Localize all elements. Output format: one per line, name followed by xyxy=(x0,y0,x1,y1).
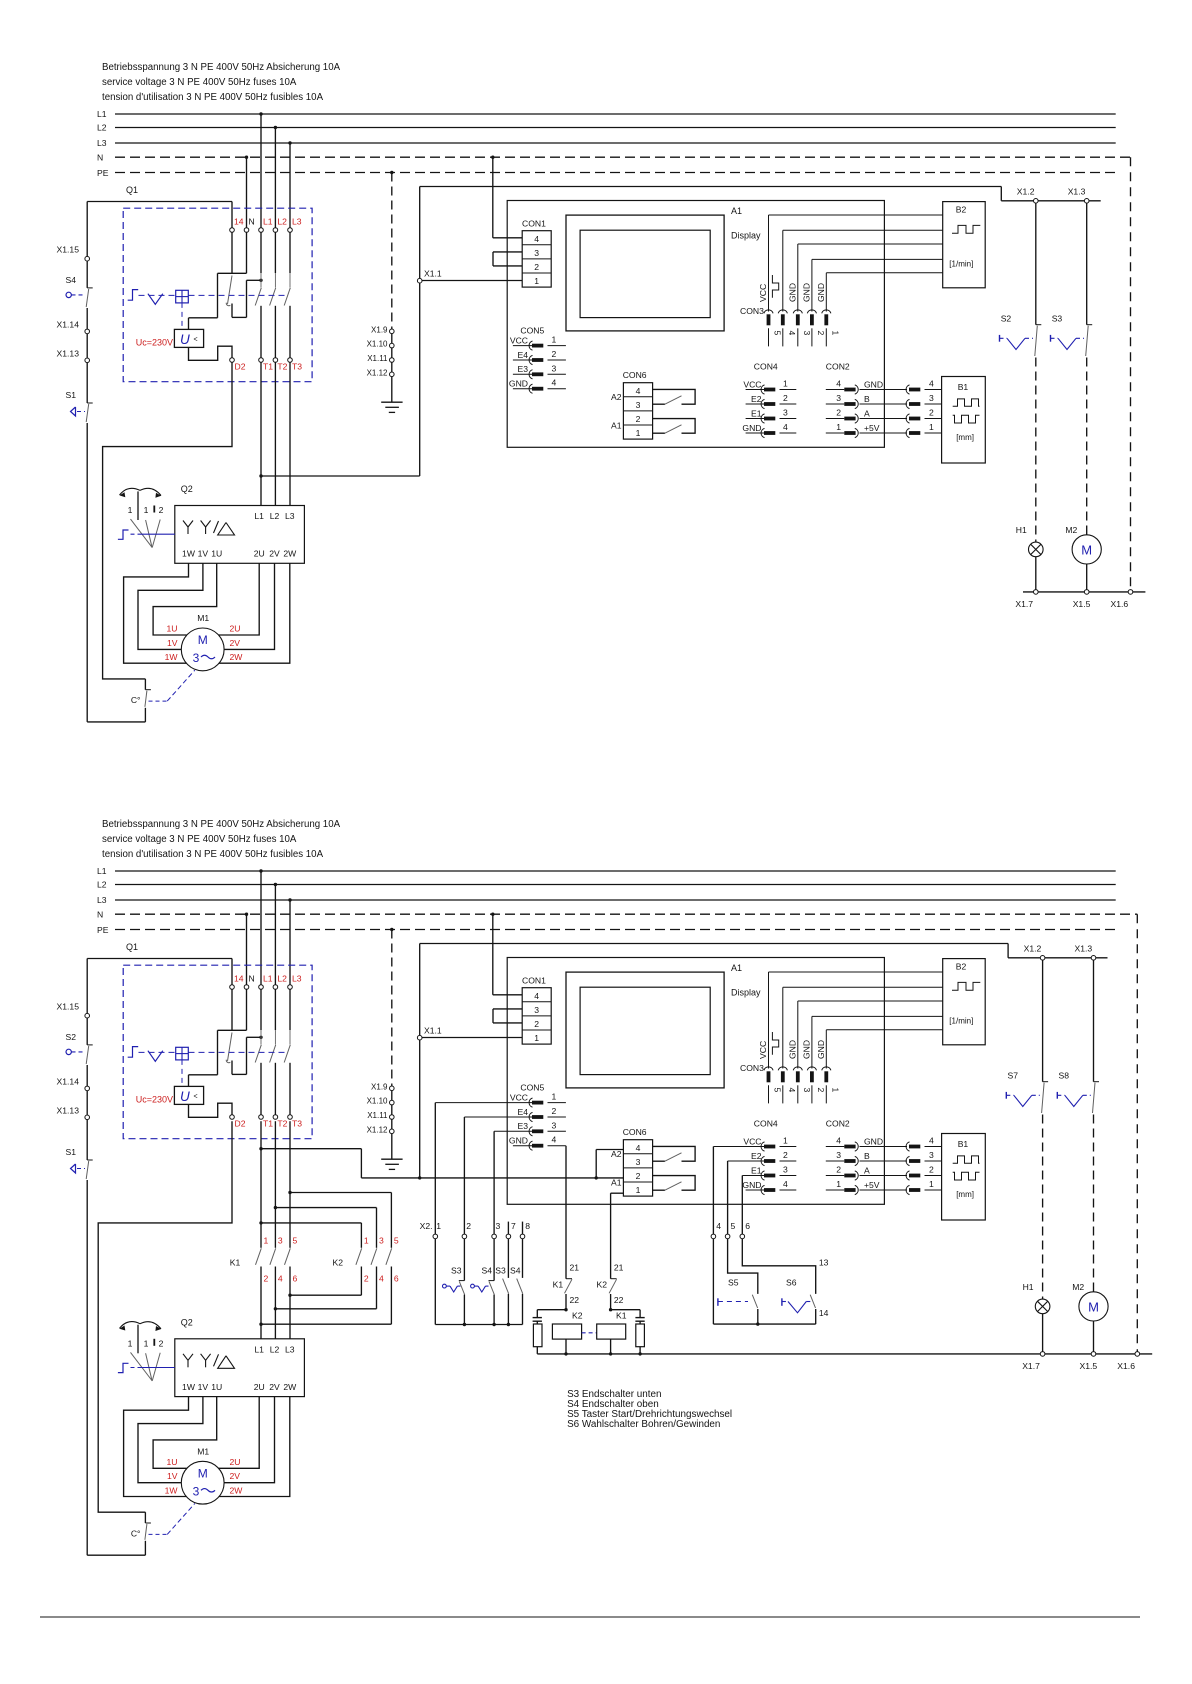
display screen outer xyxy=(566,972,724,1088)
junction L1 rail to Q1 xyxy=(259,869,262,872)
svg-text:B: B xyxy=(864,394,870,404)
svg-text:3: 3 xyxy=(534,248,539,258)
svg-text:5: 5 xyxy=(293,1236,298,1246)
sensor B1 box xyxy=(942,377,986,464)
Q1 pole L1 lead and contact xyxy=(260,232,262,273)
svg-text:K1: K1 xyxy=(553,1280,564,1290)
junction on L1 pole xyxy=(259,1036,262,1039)
svg-text:[mm]: [mm] xyxy=(956,1190,974,1199)
svg-text:S1: S1 xyxy=(65,1147,76,1157)
svg-text:L1: L1 xyxy=(97,866,107,876)
display screen inner xyxy=(580,230,710,317)
svg-text:4: 4 xyxy=(716,1221,721,1231)
Q1 U-coil to D2 wiring xyxy=(189,346,233,360)
svg-text:S6: S6 xyxy=(786,1278,797,1288)
wire terminal4 to button bus xyxy=(712,1239,714,1324)
CON3 pin 3 (GND) xyxy=(797,1001,799,1069)
svg-text:3: 3 xyxy=(836,1150,841,1160)
Q1 pole N top lead xyxy=(246,232,248,273)
S2 actuator (blue) xyxy=(999,335,1001,342)
svg-text:S4: S4 xyxy=(510,1266,521,1276)
svg-text:1: 1 xyxy=(636,428,641,438)
junction K2 coil top xyxy=(564,1308,567,1311)
svg-text:2: 2 xyxy=(636,1171,641,1181)
svg-text:A1: A1 xyxy=(611,420,622,430)
svg-text:2V: 2V xyxy=(269,549,280,559)
svg-text:1W: 1W xyxy=(182,549,196,559)
wire X2-1 to bus xyxy=(434,1239,436,1325)
wire S2 to lamp H1 (dashed) xyxy=(1035,358,1037,543)
svg-text:L1: L1 xyxy=(254,1344,264,1354)
junction K2 feed 1 xyxy=(259,1221,262,1224)
svg-text:5: 5 xyxy=(773,1088,783,1093)
svg-text:3: 3 xyxy=(636,1157,641,1167)
svg-text:S6 Wahlschalter Bohren/Gewinde: S6 Wahlschalter Bohren/Gewinden xyxy=(567,1419,720,1430)
svg-text:S7: S7 xyxy=(1008,1071,1019,1081)
svg-text:4: 4 xyxy=(636,1143,641,1153)
switch Q2 (YY/delta selector) box xyxy=(175,1339,305,1397)
svg-text:[1/min]: [1/min] xyxy=(949,1017,973,1026)
svg-text:B1: B1 xyxy=(958,382,969,392)
svg-text:service voltage 3 N PE 400V 50: service voltage 3 N PE 400V 50Hz fuses 1… xyxy=(102,77,297,88)
switch Q2 (YY/delta selector) box xyxy=(175,506,305,564)
svg-text:S5: S5 xyxy=(728,1278,739,1288)
sensor B1 box xyxy=(942,1134,986,1221)
svg-text:2: 2 xyxy=(264,1274,269,1284)
Q1 pole N top lead xyxy=(246,989,248,1030)
svg-text:S8: S8 xyxy=(1059,1071,1070,1081)
wire X1.12 to ground xyxy=(391,377,393,403)
circuit breaker Q1 enclosure (blue dashed) xyxy=(123,208,312,382)
svg-text:3: 3 xyxy=(193,1484,200,1498)
CON3 pin 1 wire to B2 xyxy=(826,272,942,274)
wire D2 to C-contact route xyxy=(103,362,232,679)
svg-text:4: 4 xyxy=(836,1136,841,1146)
wire 14 feed from X1.15 branch xyxy=(87,958,232,960)
bottom rail of right circuit xyxy=(537,1353,1152,1355)
snubber resistor left xyxy=(536,1321,538,1324)
CON3 pin 2 wire to B2 xyxy=(812,1015,943,1017)
wire Q2 2W to M1 xyxy=(219,563,290,663)
Q1 tie 14-N xyxy=(218,272,247,274)
svg-text:L1: L1 xyxy=(263,974,273,984)
wire L2 drop to Q1 xyxy=(274,128,276,228)
svg-text:X1.9: X1.9 xyxy=(371,1082,388,1091)
CON3 pin 4 wire to B2 xyxy=(783,229,943,231)
svg-text:GND: GND xyxy=(509,379,528,389)
CON3 pin 1 wire to B2 xyxy=(826,1029,942,1031)
svg-text:VCC: VCC xyxy=(510,335,528,345)
svg-text:1V: 1V xyxy=(198,549,209,559)
svg-text:13: 13 xyxy=(819,1258,829,1268)
svg-text:GND: GND xyxy=(816,1040,826,1059)
svg-text:GND: GND xyxy=(787,283,797,302)
svg-text:tension d'utilisation 3 N PE 4: tension d'utilisation 3 N PE 400V 50Hz f… xyxy=(102,849,324,860)
svg-text:M: M xyxy=(1088,1300,1099,1315)
svg-text:1V: 1V xyxy=(167,638,178,648)
svg-text:X1.12: X1.12 xyxy=(367,1125,388,1134)
junction L3 rail to Q1 xyxy=(288,141,291,144)
CON3 pin 3 wire to B2 xyxy=(798,1000,943,1002)
svg-text:L1: L1 xyxy=(97,109,107,119)
svg-text:3: 3 xyxy=(552,363,557,373)
S5 actuator (blue) xyxy=(717,1298,719,1306)
svg-text:L3: L3 xyxy=(292,217,302,227)
wire L2 drop to Q1 xyxy=(274,885,276,985)
B1 connector pin 3 xyxy=(906,1156,909,1165)
B1 connector pin 1 xyxy=(906,1185,909,1194)
svg-text:service voltage 3 N PE 400V 50: service voltage 3 N PE 400V 50Hz fuses 1… xyxy=(102,834,297,845)
svg-text:X1.12: X1.12 xyxy=(367,368,388,377)
svg-text:GND: GND xyxy=(864,1136,883,1146)
svg-text:VCC: VCC xyxy=(510,1092,528,1102)
junction K2 feed 2 xyxy=(274,1206,277,1209)
Q2 actuator link (blue) xyxy=(141,533,175,535)
svg-text:K2: K2 xyxy=(572,1311,583,1321)
wire X1.10-X1.11 xyxy=(391,348,393,358)
svg-text:S4: S4 xyxy=(65,275,76,285)
CON3 pin 1 (GND) xyxy=(825,273,827,312)
wire terminal6 to S6 xyxy=(742,1239,815,1294)
svg-text:B2: B2 xyxy=(956,205,967,215)
svg-text:3: 3 xyxy=(193,651,200,665)
K2 output 1 to T3 column xyxy=(360,1267,362,1296)
Q1 pole 14 contact blade xyxy=(228,1033,233,1062)
svg-text:2: 2 xyxy=(636,414,641,424)
CON3 pin 2 (GND) xyxy=(811,1016,813,1068)
svg-text:2: 2 xyxy=(816,1088,826,1093)
svg-text:X1.15: X1.15 xyxy=(57,245,80,255)
Q1 pole 14 bottom lead xyxy=(231,304,233,318)
terminal X1.7 xyxy=(1040,1352,1045,1357)
display screen outer xyxy=(566,215,724,331)
Q1 magnetic trip symbol (crossed square) xyxy=(176,1047,189,1060)
CON6 switch loop upper xyxy=(653,1146,696,1161)
svg-text:3: 3 xyxy=(802,1088,812,1093)
svg-text:1: 1 xyxy=(552,1092,557,1102)
wire CON6 pin1 to contactor coil branch xyxy=(611,1192,624,1194)
svg-text:4: 4 xyxy=(787,1088,797,1093)
terminal X1.5 xyxy=(1084,590,1089,595)
svg-text:2: 2 xyxy=(816,331,826,336)
svg-text:2U: 2U xyxy=(230,624,241,634)
svg-text:2: 2 xyxy=(836,1165,841,1175)
K2 output 3 to T1 column xyxy=(390,1267,392,1325)
S3 actuator (blue) xyxy=(1050,335,1052,342)
svg-text:3: 3 xyxy=(278,1236,283,1246)
wire Q2 1V to M1 xyxy=(138,1397,203,1483)
svg-text:CON5: CON5 xyxy=(520,326,544,336)
svg-text:1: 1 xyxy=(144,1338,149,1348)
Q1 thermal trip V symbol xyxy=(148,1051,163,1062)
sensor B2 box xyxy=(943,202,986,288)
svg-text:PE: PE xyxy=(97,168,109,178)
svg-text:L2: L2 xyxy=(270,511,280,521)
junction L2 rail to Q1 xyxy=(274,883,277,886)
svg-text:CON2: CON2 xyxy=(826,362,850,372)
wire D2 to C-contact route xyxy=(98,1121,232,1512)
wire S3 to motor M2 (dashed) xyxy=(1093,1115,1095,1292)
svg-text:1U: 1U xyxy=(211,549,222,559)
svg-text:1: 1 xyxy=(534,1033,539,1043)
wire Q2 1W to M1 xyxy=(124,563,189,663)
wire Q2 2W to M1 xyxy=(219,1397,290,1497)
svg-text:4: 4 xyxy=(552,378,557,388)
svg-text:2: 2 xyxy=(929,1165,934,1175)
CON6 switch loop lower xyxy=(653,419,696,434)
svg-text:E2: E2 xyxy=(751,394,762,404)
svg-text:3: 3 xyxy=(802,331,812,336)
svg-text:CON4: CON4 xyxy=(754,362,778,372)
terminal T1 of Q1 xyxy=(259,358,264,363)
Q1 trip link to U-coil (blue dashed) xyxy=(181,1060,183,1087)
svg-text:1: 1 xyxy=(552,335,557,345)
wire X1.1 to CON1 pin1 xyxy=(422,280,522,282)
terminal T2 of Q1 xyxy=(273,358,278,363)
svg-text:S4: S4 xyxy=(482,1266,493,1276)
svg-text:X1.10: X1.10 xyxy=(367,1097,388,1106)
svg-text:3: 3 xyxy=(783,408,788,418)
svg-text:X1.10: X1.10 xyxy=(367,340,388,349)
svg-text:E4: E4 xyxy=(517,1107,528,1117)
svg-text:GND: GND xyxy=(509,1136,528,1146)
junction CON6 A2 branch xyxy=(595,1176,598,1179)
junction T1 to control feeder xyxy=(259,1147,262,1150)
undervoltage release coil U< of Q1 xyxy=(174,329,203,347)
svg-text:A: A xyxy=(864,1165,870,1175)
Q1 U-coil to D2 wiring xyxy=(189,1103,233,1117)
svg-text:2U: 2U xyxy=(254,1382,265,1392)
B1 connector pin 3 xyxy=(906,399,909,408)
svg-text:GND: GND xyxy=(742,423,761,433)
B1 squarewave symbols xyxy=(953,399,980,406)
svg-text:CON4: CON4 xyxy=(754,1119,778,1129)
svg-text:5: 5 xyxy=(773,331,783,336)
wire S-switch to X1.14 xyxy=(86,1065,88,1086)
Q2 selector fan blades xyxy=(131,1352,153,1381)
svg-text:GND: GND xyxy=(742,1180,761,1190)
svg-text:X1.9: X1.9 xyxy=(371,325,388,334)
svg-text:1: 1 xyxy=(836,422,841,432)
svg-text:L2: L2 xyxy=(277,217,287,227)
wire PE drop (dashed) to X1.9 xyxy=(391,930,393,1087)
svg-text:1V: 1V xyxy=(198,1382,209,1392)
wire H1 to X1.7 xyxy=(1035,557,1037,590)
CON3 pin 5 wire to B2 xyxy=(769,214,943,216)
terminal N of Q1 xyxy=(244,228,249,233)
wire N drop to Q1 xyxy=(246,914,248,985)
svg-text:U: U xyxy=(180,332,190,347)
CON3 pin 5 (VCC) xyxy=(768,215,770,312)
svg-text:1: 1 xyxy=(831,1088,841,1093)
svg-text:3: 3 xyxy=(929,1150,934,1160)
svg-text:1: 1 xyxy=(836,1179,841,1189)
svg-text:2: 2 xyxy=(836,408,841,418)
svg-text:Betriebsspannung 3 N PE 400V 5: Betriebsspannung 3 N PE 400V 50Hz Absich… xyxy=(102,819,341,830)
svg-text:Uc=230V: Uc=230V xyxy=(136,338,173,348)
button bus S5-S6 xyxy=(713,1323,815,1325)
svg-text:2V: 2V xyxy=(230,1471,241,1481)
svg-text:2: 2 xyxy=(159,505,164,515)
Q1 trip linkage (blue dashed) xyxy=(139,1051,289,1053)
wire X1.11-X1.12 xyxy=(391,1119,393,1129)
svg-text:X1.11: X1.11 xyxy=(367,1111,388,1120)
svg-text:D2: D2 xyxy=(235,1119,246,1129)
wire X1.14 to X1.13 xyxy=(86,1091,88,1115)
CON3 pin 3 (GND) xyxy=(797,244,799,312)
CON6 switch loop upper xyxy=(653,389,696,404)
svg-text:2W: 2W xyxy=(283,1382,297,1392)
Q1 pole L3 lead and contact xyxy=(289,232,291,273)
junction L3 rail to Q1 xyxy=(288,898,291,901)
snubber resistor right xyxy=(639,1321,641,1324)
svg-text:D2: D2 xyxy=(235,362,246,372)
svg-text:GND: GND xyxy=(864,379,883,389)
wire N rail to CON1 pin4 xyxy=(492,914,494,995)
CON1 pins 3-2 bridge xyxy=(492,252,494,266)
svg-text:S3: S3 xyxy=(1052,314,1063,324)
N feeder to X1.6 (dashed) xyxy=(1136,914,1138,1351)
C-contact actuator link to motor (blue dashed) xyxy=(149,700,168,702)
svg-text:CON3: CON3 xyxy=(740,306,764,316)
Q1 trip step symbol xyxy=(128,1047,139,1058)
svg-text:4: 4 xyxy=(379,1274,384,1284)
svg-text:2: 2 xyxy=(466,1221,471,1231)
svg-text:6: 6 xyxy=(745,1221,750,1231)
Q1 pole 14 bottom lead xyxy=(231,1061,233,1075)
svg-text:GND: GND xyxy=(801,283,811,302)
svg-text:CON6: CON6 xyxy=(623,1127,647,1137)
svg-text:N: N xyxy=(249,974,255,984)
svg-text:A: A xyxy=(864,408,870,418)
svg-text:X1.5: X1.5 xyxy=(1080,1361,1098,1371)
svg-text:4: 4 xyxy=(787,331,797,336)
svg-text:X1.3: X1.3 xyxy=(1075,944,1093,954)
svg-text:4: 4 xyxy=(783,422,788,432)
CON3 pin 4 (SIG) xyxy=(782,230,784,311)
svg-text:1: 1 xyxy=(636,1185,641,1195)
Q2 selector post xyxy=(137,1325,139,1354)
svg-text:4: 4 xyxy=(929,379,934,389)
terminal L2 of Q1 xyxy=(273,228,278,233)
wire Q2 2V to M1 xyxy=(224,1397,274,1483)
wire S3 to motor M2 (dashed) xyxy=(1086,358,1088,535)
svg-text:Q1: Q1 xyxy=(126,185,138,195)
svg-text:3: 3 xyxy=(379,1236,384,1246)
svg-text:S2: S2 xyxy=(1001,314,1012,324)
CON3 pin 2 (GND) xyxy=(811,259,813,311)
svg-text:Q1: Q1 xyxy=(126,942,138,952)
ground symbol xyxy=(381,1158,402,1160)
CON3 pin 2 wire to B2 xyxy=(812,258,943,260)
wire PE drop (dashed) to X1.9 xyxy=(391,173,393,330)
Q2 selector fan blades xyxy=(131,519,153,548)
Q2 YY/delta symbols xyxy=(183,521,188,528)
svg-text:1V: 1V xyxy=(167,1471,178,1481)
wire L1 drop to Q1 xyxy=(260,871,262,985)
svg-text:M2: M2 xyxy=(1065,525,1077,535)
terminal X1.7 xyxy=(1034,590,1039,595)
svg-text:T1: T1 xyxy=(263,362,273,372)
svg-text:T2: T2 xyxy=(277,362,287,372)
undervoltage release coil U< of Q1 xyxy=(174,1086,203,1104)
svg-text:1U: 1U xyxy=(211,1382,222,1392)
CON3 pin 4 wire to B2 xyxy=(783,986,943,988)
svg-text:1: 1 xyxy=(534,276,539,286)
svg-text:4: 4 xyxy=(278,1274,283,1284)
svg-text:X1.6: X1.6 xyxy=(1117,1361,1135,1371)
svg-text:1W: 1W xyxy=(165,652,179,662)
wire X1.11-X1.12 xyxy=(391,362,393,372)
svg-text:S2: S2 xyxy=(65,1032,76,1042)
page bottom border xyxy=(40,1616,1140,1618)
svg-text:B2: B2 xyxy=(956,962,967,972)
svg-text:1: 1 xyxy=(436,1221,441,1231)
wire X1.10-X1.11 xyxy=(391,1105,393,1115)
B1 connector pin 2 xyxy=(906,414,909,423)
Q1 trip linkage (blue dashed) xyxy=(139,294,289,296)
wire N rail to CON1 pin4 xyxy=(492,157,494,238)
svg-text:X1.5: X1.5 xyxy=(1073,599,1091,609)
Q1 tie 14-N xyxy=(218,1029,247,1031)
wire S1 down to motor-protection bus xyxy=(86,1180,88,1555)
svg-text:B1: B1 xyxy=(958,1139,969,1149)
svg-text:Q2: Q2 xyxy=(181,484,193,494)
svg-text:L3: L3 xyxy=(285,1344,295,1354)
svg-text:[mm]: [mm] xyxy=(956,433,974,442)
svg-text:2: 2 xyxy=(159,1338,164,1348)
svg-text:2: 2 xyxy=(552,349,557,359)
svg-text:14: 14 xyxy=(234,217,244,227)
svg-text:2W: 2W xyxy=(230,1486,244,1496)
wire T1 column through contactor K1 xyxy=(260,1121,262,1248)
wire X1.12 to ground xyxy=(391,1134,393,1160)
svg-text:L1: L1 xyxy=(254,511,264,521)
svg-text:E2: E2 xyxy=(751,1151,762,1161)
S1 actuator (blue) xyxy=(71,407,76,416)
CON3 pin 3 wire to B2 xyxy=(798,243,943,245)
B2 squarewave symbol xyxy=(952,982,980,990)
svg-text:K2: K2 xyxy=(333,1258,344,1268)
snubber capacitor left xyxy=(537,1309,566,1311)
svg-text:4: 4 xyxy=(836,379,841,389)
svg-text:B: B xyxy=(864,1151,870,1161)
svg-text:X1.13: X1.13 xyxy=(57,1106,80,1116)
svg-text:2U: 2U xyxy=(254,549,265,559)
Q1 pole L1 lead and contact xyxy=(260,989,262,1030)
svg-text:E1: E1 xyxy=(751,408,762,418)
bottom rail of right circuit xyxy=(1023,591,1145,593)
svg-text:5: 5 xyxy=(394,1236,399,1246)
CON3 pin 4 (SIG) xyxy=(782,987,784,1068)
wire X1.1 to CON1 pin1 xyxy=(422,1037,522,1039)
CON1 pin3 wire xyxy=(493,251,522,253)
junction N rail to CON1 xyxy=(491,156,494,159)
terminal X1.6 xyxy=(1135,1352,1140,1357)
wire X1.1 up and over to X1.2 xyxy=(419,187,421,279)
terminal N of Q1 xyxy=(244,985,249,990)
svg-text:U: U xyxy=(180,1089,190,1104)
S6 actuator (blue) xyxy=(781,1298,783,1306)
Q1 trip step symbol xyxy=(128,290,139,301)
Q1 pole L3 lead and contact xyxy=(289,989,291,1030)
svg-text:L2: L2 xyxy=(97,123,107,133)
Q1 pole 14 contact blade xyxy=(228,276,233,305)
terminal D2 of Q1 xyxy=(230,1115,235,1120)
svg-text:VCC: VCC xyxy=(743,379,761,389)
svg-text:Display: Display xyxy=(731,988,761,998)
wire T1 to Q2 L1 xyxy=(260,362,262,505)
